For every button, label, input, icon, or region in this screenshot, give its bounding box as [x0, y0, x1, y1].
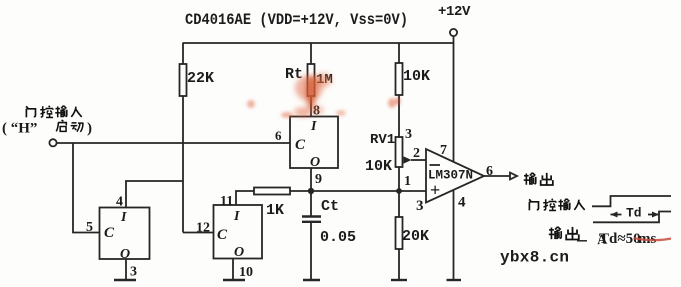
ground U1b: [114, 259, 136, 280]
svg-text:I: I: [310, 119, 317, 134]
svg-text:RV1: RV1: [370, 132, 395, 148]
capacitor Ct: [302, 217, 321, 280]
svg-text:+: +: [430, 180, 440, 200]
ground U1d: [223, 259, 245, 280]
op-amp pin 4: [458, 195, 466, 211]
label Td: [626, 206, 642, 221]
node junction Ct: [309, 189, 314, 194]
op-amp pin 7: [440, 143, 447, 158]
watermark ybx8.cn: [500, 249, 569, 267]
ground op-amp: [447, 279, 462, 281]
svg-text:O: O: [120, 247, 130, 262]
pin 6: [275, 128, 282, 143]
pin 3 switch output: [130, 265, 137, 280]
pin 11: [220, 194, 233, 209]
label 0.05: [320, 229, 356, 246]
label gate input chinese: [26, 106, 82, 118]
pin 5: [86, 220, 93, 235]
pin 9: [315, 172, 322, 187]
wire: top supply rail: [183, 42, 454, 44]
svg-text:2: 2: [413, 146, 420, 161]
svg-text:10K: 10K: [403, 68, 430, 85]
svg-text:10K: 10K: [365, 158, 392, 175]
waveform gate trace: [592, 196, 671, 206]
label H start note: [2, 120, 92, 136]
svg-text:12: 12: [196, 221, 210, 236]
resistor R4 20K: [396, 191, 403, 280]
ground Ct: [303, 279, 320, 281]
title CD4016AE supply note: [185, 11, 408, 29]
waveform output underline: [577, 240, 587, 242]
op-amp U2 LM307N: [426, 149, 484, 203]
analog switch U1b box: [100, 208, 150, 263]
wire: output pin6: [484, 173, 517, 180]
pin 12: [196, 221, 210, 236]
label Td approx 50ms: [597, 231, 657, 248]
wire: switch out pin9 down: [310, 168, 312, 216]
label 22K: [187, 70, 214, 87]
node junction RV1 bottom: [397, 189, 401, 193]
pin 10: [239, 265, 253, 280]
label 20K: [402, 228, 429, 245]
svg-text:0.05: 0.05: [320, 229, 356, 246]
svg-text:7: 7: [440, 143, 447, 158]
analog switch U1c box: [290, 117, 338, 171]
svg-text:Ct: Ct: [321, 198, 339, 215]
svg-text:I: I: [233, 209, 240, 224]
label 10K: [403, 68, 430, 85]
resistor R1 22K: [180, 43, 187, 233]
wire: pin11 up to 1K: [236, 191, 254, 205]
svg-text:3: 3: [130, 265, 137, 280]
potentiometer RV1: [396, 137, 427, 191]
Td arrows: [611, 212, 660, 218]
svg-text:ybx8.cn: ybx8.cn: [500, 249, 569, 267]
svg-text:3: 3: [405, 127, 412, 142]
label Ct: [321, 198, 339, 215]
svg-text:22K: 22K: [187, 70, 214, 87]
svg-text:CD4016AE (VDD=+12V, Vss=0V): CD4016AE (VDD=+12V, Vss=0V): [185, 11, 408, 29]
+12V terminal: [450, 29, 457, 36]
wire: timing node to op-amp pin3: [290, 190, 426, 192]
svg-text:10: 10: [239, 265, 253, 280]
svg-text:A: A: [597, 232, 609, 248]
svg-text:I: I: [120, 210, 127, 225]
svg-text:11: 11: [220, 194, 233, 209]
pin 4: [116, 195, 123, 210]
resistor Rt 1M: [308, 43, 315, 116]
pot pin 1: [404, 174, 411, 189]
wire: +12V drop to rail and op-amp pin7: [453, 36, 455, 161]
wire: branch down to U1b control: [73, 143, 99, 233]
svg-text:1: 1: [404, 174, 411, 189]
op-amp pin 2: [413, 146, 420, 161]
resistor R2 10K: [396, 43, 403, 137]
label RV1: [370, 132, 395, 148]
svg-text:20K: 20K: [402, 228, 429, 245]
red pen mark: [634, 238, 671, 240]
svg-text:9: 9: [315, 172, 322, 187]
svg-text:5: 5: [86, 220, 93, 235]
wire: pin4 up to 22K leg: [126, 181, 183, 208]
svg-text:Td: Td: [626, 206, 642, 221]
svg-text:+12V: +12V: [438, 4, 471, 20]
label 10K RV1: [365, 158, 392, 175]
wire: gate input to switch C: [57, 142, 290, 144]
svg-text:C: C: [217, 227, 228, 243]
svg-text:6: 6: [275, 128, 282, 143]
label 1M: [316, 72, 333, 88]
svg-text:C: C: [295, 137, 306, 153]
label Rt: [285, 66, 303, 83]
svg-text:( “H”: ( “H”: [2, 121, 37, 137]
pot pin 3: [405, 127, 412, 142]
analog switch U1d box: [214, 205, 263, 260]
+12V supply label: [438, 4, 471, 20]
resistor R3 1K: [254, 188, 290, 195]
wire: op-amp pin4 to ground: [453, 190, 455, 279]
svg-text:C: C: [104, 225, 115, 241]
svg-text:O: O: [234, 245, 244, 260]
svg-text:): ): [87, 121, 92, 137]
pin 8: [313, 104, 320, 119]
wire: 22K leg to U1d control: [183, 232, 213, 234]
gate input terminal: [49, 139, 56, 146]
waveform gate label: [529, 199, 585, 211]
svg-text:O: O: [310, 155, 320, 170]
svg-text:4: 4: [116, 195, 123, 210]
svg-text:1K: 1K: [266, 202, 284, 219]
label 1K: [266, 202, 284, 219]
ground 20K: [391, 279, 407, 281]
scan smudges: [294, 73, 332, 117]
op-amp pin 6: [486, 164, 493, 179]
waveform output label: [549, 227, 579, 240]
svg-text:4: 4: [458, 195, 466, 211]
waveform output trace: [593, 212, 671, 223]
op-amp pin 3: [416, 198, 424, 214]
label output: [524, 173, 553, 185]
svg-text:3: 3: [416, 198, 424, 214]
